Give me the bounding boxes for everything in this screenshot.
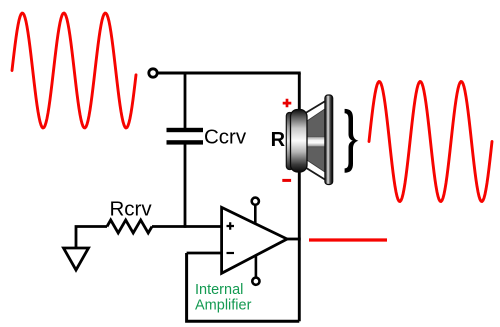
resistor Rcrv <box>107 220 152 233</box>
capacitor Ccrv <box>167 128 204 145</box>
ground <box>64 248 89 270</box>
output signal line <box>309 238 387 241</box>
label speaker minus terminal <box>282 179 291 182</box>
wire capacitor top lead <box>184 73 187 128</box>
pin V- bottom <box>252 255 259 284</box>
wire inverting input <box>187 252 223 255</box>
node A input terminal <box>149 69 157 77</box>
wire feedback left and bottom <box>187 253 300 321</box>
op-amp U1 <box>222 207 288 273</box>
wire resistor left lead <box>76 227 107 249</box>
input signal sine wave <box>12 13 136 128</box>
wire top horizontal <box>157 72 301 75</box>
wire output <box>287 238 301 241</box>
output signal sine wave <box>369 82 492 202</box>
wire right vertical <box>298 73 301 321</box>
wire noninverting input <box>152 225 222 228</box>
svg-text:R: R <box>271 129 286 151</box>
svg-text:Rcrv: Rcrv <box>110 197 153 220</box>
pin V+ top <box>252 198 259 224</box>
wire capacitor bottom lead <box>184 144 187 228</box>
svg-text:InternalAmplifier: InternalAmplifier <box>195 282 252 313</box>
speaker R <box>286 95 332 185</box>
label speaker plus terminal <box>283 99 292 107</box>
svg-text:Ccrv: Ccrv <box>204 126 247 149</box>
brace <box>345 109 359 173</box>
